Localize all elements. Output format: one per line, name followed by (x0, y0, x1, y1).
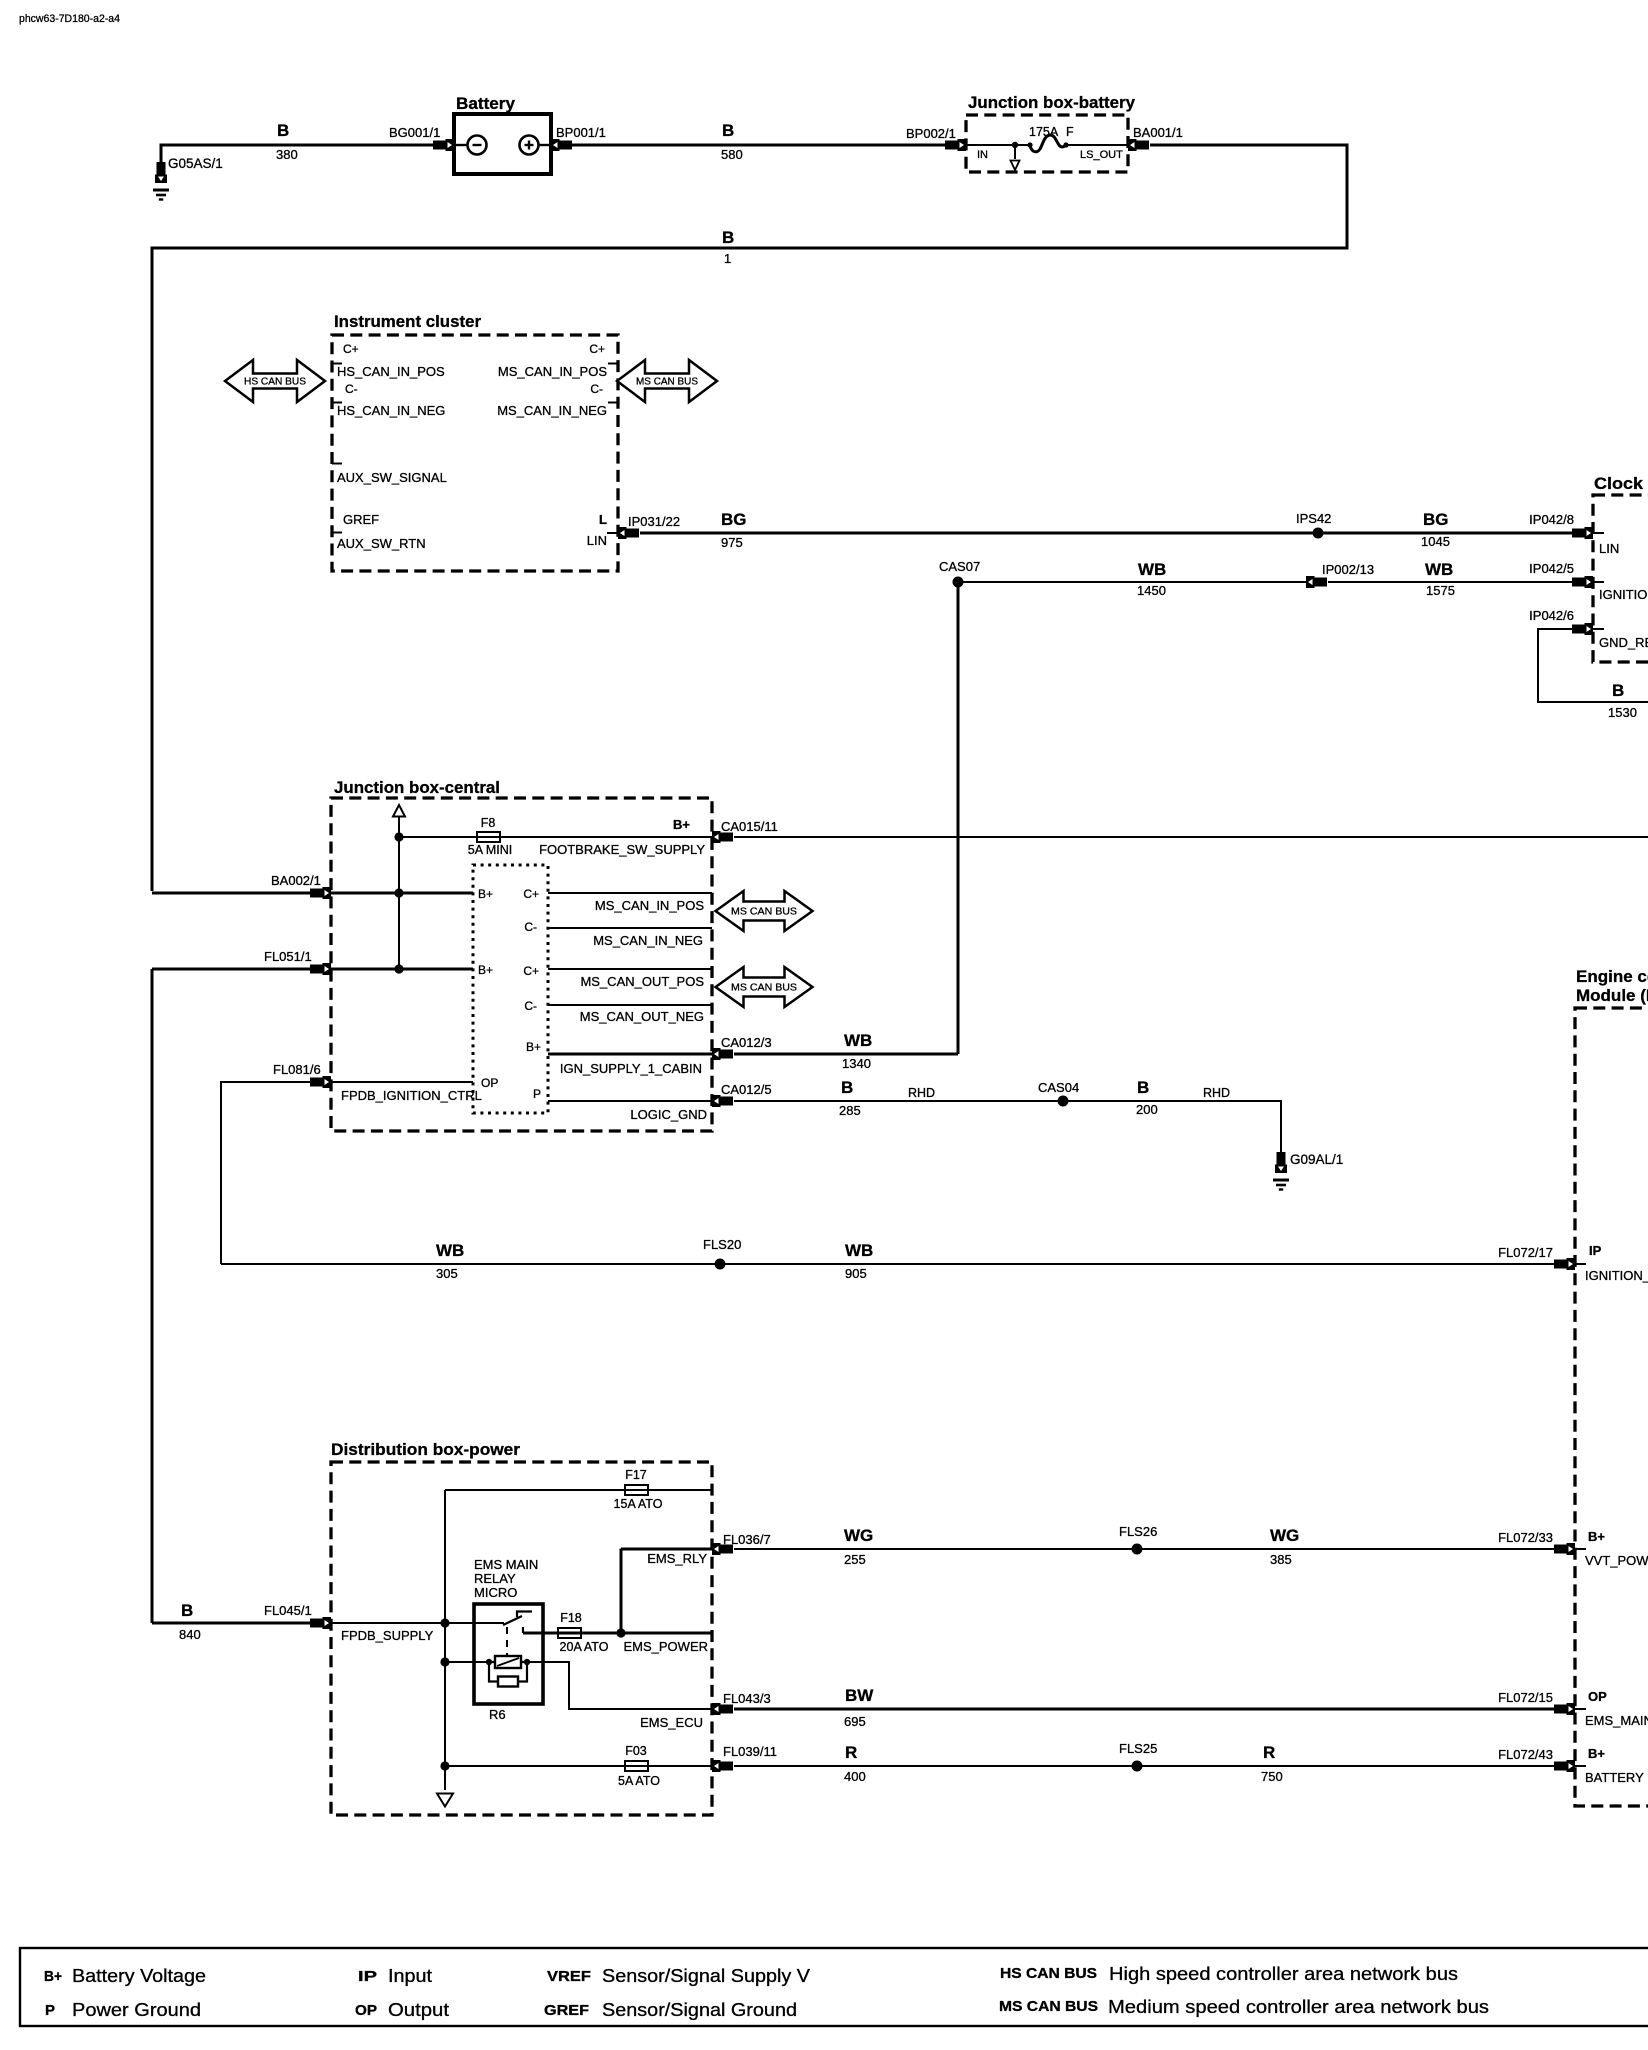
wire battery negative to ground G05AS/1 (161, 145, 435, 162)
svg-text:EMS MAIN: EMS MAIN (474, 1557, 538, 1572)
svg-text:MS_CAN_IN_NEG: MS_CAN_IN_NEG (497, 403, 607, 418)
connector FL081/6 (310, 1076, 331, 1088)
wire to fuse F8 and FOOTBRAKE pin (399, 836, 712, 838)
svg-text:1450: 1450 (1137, 583, 1166, 598)
legend box (20, 1948, 1648, 2026)
svg-text:IGNITION_SUPPLY: IGNITION_SUPPLY (1585, 1268, 1648, 1283)
svg-text:BG: BG (1423, 510, 1449, 529)
svg-text:Junction box-battery: Junction box-battery (968, 93, 1136, 112)
svg-text:B: B (722, 121, 734, 140)
coil parallel right leg (518, 1662, 527, 1682)
svg-text:OP: OP (481, 1076, 498, 1090)
wire WB 305 (221, 1263, 720, 1265)
svg-text:B+: B+ (1588, 1746, 1605, 1761)
svg-text:WB: WB (436, 1241, 464, 1260)
svg-text:305: 305 (436, 1266, 458, 1281)
wire fuse to LS_OUT (1066, 144, 1128, 146)
splice FLS20 (715, 1259, 726, 1270)
svg-text:975: 975 (721, 535, 743, 550)
svg-text:FLS25: FLS25 (1119, 1741, 1157, 1756)
svg-text:WG: WG (1270, 1526, 1299, 1545)
svg-text:Power Ground: Power Ground (72, 2000, 201, 2020)
svg-text:WB: WB (845, 1241, 873, 1260)
svg-text:385: 385 (1270, 1552, 1292, 1567)
connector CA012/5 (712, 1095, 733, 1107)
connector IP031/22 (618, 527, 639, 539)
svg-text:5A MINI: 5A MINI (468, 843, 512, 857)
battery box (454, 114, 551, 174)
svg-text:High speed controller area net: High speed controller area network bus (1109, 1964, 1458, 1984)
wire B 840 to FL045/1 (152, 1622, 311, 1625)
wire EMS_POWER (543, 1632, 712, 1635)
connector FL051/1 (310, 963, 331, 975)
svg-text:LOGIC_GND: LOGIC_GND (630, 1107, 707, 1122)
svg-text:BP002/1: BP002/1 (906, 126, 956, 141)
connector FL039/11 (712, 1760, 733, 1772)
junction dot F03 wire (440, 1761, 449, 1770)
svg-text:Distribution box-power: Distribution box-power (331, 1440, 520, 1459)
svg-text:B: B (277, 121, 289, 140)
junction box-battery outline (966, 115, 1128, 172)
svg-text:B: B (1137, 1078, 1149, 1097)
svg-text:RHD: RHD (1203, 1086, 1230, 1100)
svg-text:BATTERY: BATTERY (1585, 1770, 1644, 1785)
connector IP002/13 (1306, 576, 1327, 588)
wire WG 385 (1137, 1548, 1556, 1550)
pin tick HS_CAN_IN_NEG (332, 402, 342, 404)
svg-text:Instrument cluster: Instrument cluster (334, 312, 481, 331)
svg-text:400: 400 (844, 1769, 866, 1784)
wire WB 1340 to CAS07 (734, 1053, 958, 1056)
svg-text:Output: Output (388, 2000, 449, 2020)
wire FPDB_IGNITION_CTRL (331, 1081, 473, 1083)
svg-text:FLS26: FLS26 (1119, 1524, 1157, 1539)
svg-text:BA001/1: BA001/1 (1133, 125, 1183, 140)
connector FL072/43 (1554, 1760, 1575, 1772)
svg-text:Battery: Battery (456, 94, 516, 113)
svg-text:FPDB_IGNITION_CTRL: FPDB_IGNITION_CTRL (341, 1088, 482, 1103)
wire B 1530 clock GND_REF (1538, 629, 1648, 702)
svg-text:B: B (841, 1078, 853, 1097)
coil right terminal (524, 1659, 530, 1665)
svg-text:C-: C- (590, 382, 603, 396)
svg-text:BP001/1: BP001/1 (556, 125, 606, 140)
svg-text:FL072/17: FL072/17 (1498, 1245, 1553, 1260)
wire EMS_RLY vertical (620, 1549, 623, 1634)
relay switch arm (503, 1616, 522, 1625)
svg-text:GREF: GREF (343, 512, 379, 527)
wire BA002 to inner module (331, 892, 473, 895)
connector BG001/1 (433, 139, 454, 151)
connector G09AL/1 (1275, 1152, 1287, 1173)
relay R6 box (474, 1604, 543, 1704)
svg-text:B: B (181, 1601, 193, 1620)
svg-text:580: 580 (721, 147, 743, 162)
svg-text:G09AL/1: G09AL/1 (1290, 1152, 1343, 1167)
wire WB 1450 CAS07 to IP002/13 (958, 581, 1306, 583)
wire BG 975 cluster to IPS42 (640, 532, 1318, 535)
cluster LIN pin stub (607, 532, 618, 534)
svg-text:VVT_POWER: VVT_POWER (1585, 1553, 1648, 1568)
up arrow inside junction box-central (393, 805, 405, 817)
svg-text:LS_OUT: LS_OUT (1080, 149, 1123, 161)
svg-text:FL039/11: FL039/11 (723, 1744, 777, 1759)
svg-text:G05AS/1: G05AS/1 (168, 156, 223, 171)
pin stub FL072/43 (1575, 1765, 1586, 1767)
splice IPS42 (1313, 528, 1324, 539)
svg-text:R: R (1263, 1743, 1275, 1762)
svg-text:RELAY: RELAY (474, 1571, 516, 1586)
instrument cluster outline (332, 335, 618, 571)
svg-text:BA002/1: BA002/1 (271, 873, 321, 888)
svg-text:FL072/33: FL072/33 (1498, 1530, 1553, 1545)
coil parallel left leg (489, 1662, 498, 1682)
wire footbrake supply to page edge (734, 836, 1648, 838)
svg-text:15A ATO: 15A ATO (614, 1497, 663, 1511)
junction dot EMS_RLY (616, 1628, 625, 1637)
wire to fuse F03 (445, 1765, 712, 1767)
svg-text:P: P (45, 2003, 55, 2019)
pin tick HS_CAN_IN_POS (332, 363, 342, 365)
svg-text:AUX_SW_SIGNAL: AUX_SW_SIGNAL (337, 470, 447, 485)
splice FLS26 (1132, 1544, 1143, 1555)
svg-text:F17: F17 (625, 1468, 647, 1482)
svg-text:MS_CAN_IN_POS: MS_CAN_IN_POS (595, 898, 704, 913)
svg-text:1045: 1045 (1421, 534, 1450, 549)
svg-text:C+: C+ (523, 964, 539, 978)
pin tick AUX_SW_SIGNAL (332, 463, 342, 465)
connector FL072/15 (1554, 1703, 1575, 1715)
svg-text:WB: WB (1138, 560, 1166, 579)
connector FL043/3 (712, 1703, 733, 1715)
fuse F03 (625, 1761, 648, 1771)
splice FLS25 (1132, 1761, 1143, 1772)
connector BA001/1 (1128, 139, 1149, 151)
svg-text:B+: B+ (478, 887, 493, 901)
connector BA002/1 (310, 887, 331, 899)
bus vertical inside distribution box (444, 1490, 446, 1790)
wire R 750 (1137, 1765, 1556, 1767)
coil left terminal (486, 1659, 492, 1665)
fuse F8 (477, 832, 500, 842)
svg-text:BG001/1: BG001/1 (389, 125, 440, 140)
svg-text:F18: F18 (560, 1611, 582, 1625)
svg-text:IP: IP (358, 1969, 377, 1985)
connector IP042/6 (1572, 623, 1593, 635)
wire coil feed (445, 1661, 489, 1663)
wire FPDB_SUPPLY (331, 1622, 474, 1624)
svg-text:MICRO: MICRO (474, 1585, 517, 1600)
junction box-central outline (331, 798, 712, 1131)
connector G05AS/1 (155, 162, 167, 183)
svg-text:Input: Input (388, 1966, 432, 1986)
splice CAS04 (1058, 1096, 1069, 1107)
svg-text:C-: C- (345, 382, 358, 396)
relay switch contact step (517, 1612, 532, 1618)
pin tick MS_CAN_IN_NEG (608, 402, 618, 404)
svg-text:R: R (845, 1743, 857, 1762)
svg-text:MS CAN BUS: MS CAN BUS (999, 1999, 1098, 2015)
connector BP001/1 (551, 139, 572, 151)
engine control module outline (1575, 1008, 1648, 1806)
MS CAN BUS arrow at cluster (617, 360, 717, 402)
svg-text:IPS42: IPS42 (1296, 511, 1331, 526)
svg-text:695: 695 (844, 1714, 866, 1729)
svg-text:BG: BG (721, 510, 747, 529)
svg-text:FPDB_SUPPLY: FPDB_SUPPLY (341, 1628, 434, 1643)
svg-text:L: L (599, 512, 607, 527)
svg-text:C+: C+ (523, 887, 539, 901)
wire WB 1575 to clock (1328, 581, 1585, 583)
junction dot FL051 wire (394, 964, 403, 973)
pin stub FL072/33 (1575, 1548, 1586, 1550)
connector FL072/17 (1554, 1258, 1575, 1270)
svg-text:IP: IP (1589, 1243, 1602, 1258)
svg-text:EMS_POWER: EMS_POWER (623, 1639, 708, 1654)
pin tick MS_CAN_IN_POS (608, 363, 618, 365)
wire coil to EMS_ECU (527, 1662, 712, 1709)
svg-text:WB: WB (1425, 560, 1453, 579)
svg-text:Engine control: Engine control (1576, 967, 1648, 986)
svg-text:MS_CAN_OUT_NEG: MS_CAN_OUT_NEG (580, 1009, 704, 1024)
fuse F17 (625, 1485, 648, 1495)
svg-text:B+: B+ (478, 963, 493, 977)
svg-text:B+: B+ (1588, 1529, 1605, 1544)
wire FL051/1 input from left bus (152, 968, 311, 971)
junction tap dot (1012, 142, 1018, 148)
wire B 580 battery positive to junction box-battery (572, 144, 945, 147)
svg-text:B+: B+ (526, 1040, 541, 1054)
svg-text:EMS_RLY: EMS_RLY (647, 1551, 707, 1566)
svg-text:IGNITION_SW: IGNITION_SW (1599, 587, 1648, 602)
svg-text:B: B (722, 228, 734, 247)
svg-text:P: P (533, 1087, 541, 1101)
svg-text:380: 380 (276, 147, 298, 162)
fuse 175A element (1027, 135, 1068, 152)
wire WB 905 (720, 1263, 1556, 1265)
tap stub (1014, 145, 1016, 159)
wire R 400 (734, 1765, 1137, 1767)
svg-text:5A ATO: 5A ATO (618, 1774, 660, 1788)
svg-text:IP031/22: IP031/22 (628, 514, 680, 529)
svg-text:MS CAN BUS: MS CAN BUS (731, 982, 797, 994)
wire FL081/6 ignition ctrl (221, 1082, 311, 1264)
wire BA002/1 input (152, 892, 311, 895)
svg-text:GREF: GREF (544, 2003, 589, 2019)
svg-text:Medium speed controller area n: Medium speed controller area network bus (1108, 1997, 1489, 2017)
svg-text:MS_CAN_IN_POS: MS_CAN_IN_POS (498, 364, 607, 379)
ground G09AL/1 symbol (1273, 1180, 1289, 1190)
svg-text:HS CAN BUS: HS CAN BUS (244, 376, 306, 388)
fuse F18 (558, 1628, 581, 1638)
wire EMS_RLY (621, 1548, 712, 1551)
svg-text:FL045/1: FL045/1 (264, 1603, 312, 1618)
svg-text:1: 1 (724, 251, 731, 266)
wire MS_CAN_OUT_NEG (548, 1004, 712, 1006)
wire B 285 RHD (734, 1100, 1063, 1102)
wire MS_CAN_IN_NEG (548, 927, 712, 929)
clock outline (1593, 495, 1648, 662)
relay switch output (523, 1632, 543, 1635)
svg-text:B+: B+ (44, 1969, 62, 1985)
svg-text:IP002/13: IP002/13 (1322, 562, 1374, 577)
svg-text:1575: 1575 (1426, 583, 1455, 598)
svg-text:1530: 1530 (1608, 705, 1637, 720)
svg-text:750: 750 (1261, 1769, 1283, 1784)
svg-text:B+: B+ (673, 817, 690, 832)
svg-text:IN: IN (977, 149, 988, 161)
HS CAN BUS arrow (225, 360, 325, 402)
connector IP042/8 (1572, 527, 1593, 539)
svg-text:IP042/8: IP042/8 (1529, 512, 1574, 527)
wire CAS07 vertical to IGN_SUPPLY (957, 582, 960, 1054)
svg-text:RHD: RHD (908, 1086, 935, 1100)
svg-text:C-: C- (524, 920, 537, 934)
svg-text:IGN_SUPPLY_1_CABIN: IGN_SUPPLY_1_CABIN (560, 1061, 702, 1076)
connector FL036/7 (712, 1543, 733, 1555)
distribution box-power outline (331, 1462, 712, 1815)
relay switch input (474, 1622, 504, 1624)
relay resistor element (498, 1677, 518, 1687)
svg-text:905: 905 (845, 1266, 867, 1281)
connector CA012/3 (712, 1048, 733, 1060)
wire LOGIC_GND (548, 1100, 712, 1102)
clock LIN pin stub (1593, 532, 1604, 534)
svg-text:20A ATO: 20A ATO (560, 1640, 609, 1654)
svg-text:MS CAN BUS: MS CAN BUS (636, 376, 698, 388)
svg-text:FLS20: FLS20 (703, 1237, 741, 1252)
connector IP042/5 (1572, 576, 1593, 588)
wire BG 1045 IPS42 to clock (1318, 532, 1585, 535)
svg-text:GND_REF: GND_REF (1599, 635, 1648, 650)
svg-text:FL036/7: FL036/7 (723, 1532, 771, 1547)
svg-text:BW: BW (845, 1686, 874, 1705)
svg-text:B: B (1612, 681, 1624, 700)
svg-text:Clock: Clock (1594, 474, 1644, 493)
svg-text:IP042/5: IP042/5 (1529, 561, 1574, 576)
connector BP002/1 (945, 139, 966, 151)
svg-text:HS CAN BUS: HS CAN BUS (1000, 1966, 1097, 1982)
svg-text:AUX_SW_RTN: AUX_SW_RTN (337, 536, 426, 551)
svg-text:WB: WB (844, 1031, 872, 1050)
svg-text:Junction box-central: Junction box-central (334, 778, 500, 797)
junction dot BA002 wire (394, 888, 403, 897)
svg-text:Module (ECM): Module (ECM) (1576, 986, 1648, 1005)
relay actuator dashed link (506, 1627, 508, 1656)
svg-text:WG: WG (844, 1526, 873, 1545)
relay switch post (522, 1627, 524, 1633)
svg-text:LIN: LIN (587, 533, 607, 548)
svg-text:C+: C+ (589, 342, 605, 356)
tap arrow (1011, 161, 1020, 171)
wire inside junction box-battery to fuse (966, 144, 1030, 146)
svg-text:FL072/15: FL072/15 (1498, 1690, 1553, 1705)
pin tick AUX_SW_RTN (332, 532, 342, 534)
svg-text:FOOTBRAKE_SW_SUPPLY: FOOTBRAKE_SW_SUPPLY (539, 842, 705, 857)
svg-text:MS CAN BUS: MS CAN BUS (731, 906, 797, 918)
svg-text:phcw63-7D180-a2-a4: phcw63-7D180-a2-a4 (19, 13, 120, 25)
wire to fuse F17 (445, 1489, 712, 1491)
svg-text:OP: OP (1588, 1689, 1607, 1704)
svg-text:CAS07: CAS07 (939, 559, 980, 574)
svg-text:840: 840 (179, 1627, 201, 1642)
svg-text:CA015/11: CA015/11 (721, 819, 778, 834)
relay coil element (495, 1656, 521, 1668)
pin stub FL072/15 (1575, 1708, 1586, 1710)
svg-text:FL081/6: FL081/6 (273, 1062, 321, 1077)
down arrow inside distribution box (437, 1794, 453, 1807)
pin stub FL072/17 (1575, 1263, 1586, 1265)
svg-text:FL051/1: FL051/1 (264, 949, 312, 964)
junction dot coil wire (440, 1657, 449, 1666)
connector FL045/1 (310, 1617, 331, 1629)
clock IGNITION pin stub (1593, 581, 1604, 583)
svg-text:HS_CAN_IN_NEG: HS_CAN_IN_NEG (337, 403, 445, 418)
svg-text:CA012/5: CA012/5 (721, 1082, 772, 1097)
svg-text:CA012/3: CA012/3 (721, 1035, 772, 1050)
ground lead G09AL/1 (1280, 1147, 1282, 1152)
wire IGN_SUPPLY_1_CABIN (548, 1053, 712, 1056)
wire MS_CAN_IN_POS (548, 892, 712, 894)
svg-text:F: F (1066, 125, 1074, 139)
svg-text:HS_CAN_IN_POS: HS_CAN_IN_POS (337, 364, 445, 379)
MS CAN BUS arrow out 2 (716, 967, 813, 1007)
connector FL072/33 (1554, 1543, 1575, 1555)
svg-text:C+: C+ (343, 342, 359, 356)
MS CAN BUS arrow in 1 (716, 891, 813, 931)
wire FL051 to inner module (331, 968, 473, 971)
bus vertical inside junction box-central (398, 817, 400, 970)
wire MS_CAN_OUT_POS (548, 968, 712, 970)
battery positive terminal (520, 136, 550, 155)
svg-text:MS_CAN_IN_NEG: MS_CAN_IN_NEG (593, 933, 703, 948)
splice CAS07 (953, 577, 964, 588)
junction dot FPDB wire (440, 1618, 449, 1627)
svg-text:175A: 175A (1029, 125, 1059, 139)
svg-text:F03: F03 (625, 1744, 647, 1758)
svg-text:200: 200 (1136, 1102, 1158, 1117)
svg-text:285: 285 (839, 1103, 861, 1118)
svg-text:FL043/3: FL043/3 (723, 1691, 771, 1706)
svg-text:255: 255 (844, 1552, 866, 1567)
svg-text:CAS04: CAS04 (1038, 1080, 1079, 1095)
wire B 1 junction box-battery to left bus (152, 145, 1347, 891)
svg-text:EMS_ECU: EMS_ECU (640, 1715, 703, 1730)
wire B 200 RHD to ground (1063, 1101, 1281, 1147)
svg-text:OP: OP (355, 2003, 377, 2019)
svg-text:1340: 1340 (842, 1056, 871, 1071)
connector CA015/11 (712, 831, 733, 843)
svg-text:C-: C- (524, 999, 537, 1013)
svg-text:EMS_MAIN_RLY: EMS_MAIN_RLY (1585, 1713, 1648, 1728)
ground G05AS/1 symbol (153, 190, 169, 200)
svg-text:FL072/43: FL072/43 (1498, 1747, 1553, 1762)
wire WG 255 (734, 1548, 1137, 1550)
inner module dotted outline (473, 865, 548, 1113)
svg-text:LIN: LIN (1599, 541, 1619, 556)
svg-text:VREF: VREF (547, 1969, 591, 1985)
svg-text:R6: R6 (489, 1707, 506, 1722)
wire BW 695 (734, 1708, 1556, 1711)
left bus vertical lower (151, 969, 154, 1623)
junction dot F8 wire (394, 832, 403, 841)
clock GND_REF pin stub (1593, 628, 1604, 630)
svg-text:Sensor/Signal Ground: Sensor/Signal Ground (602, 2000, 797, 2020)
svg-text:IP042/6: IP042/6 (1529, 608, 1574, 623)
svg-text:Battery Voltage: Battery Voltage (72, 1966, 206, 1986)
battery negative terminal (456, 136, 487, 155)
svg-text:MS_CAN_OUT_POS: MS_CAN_OUT_POS (580, 974, 704, 989)
